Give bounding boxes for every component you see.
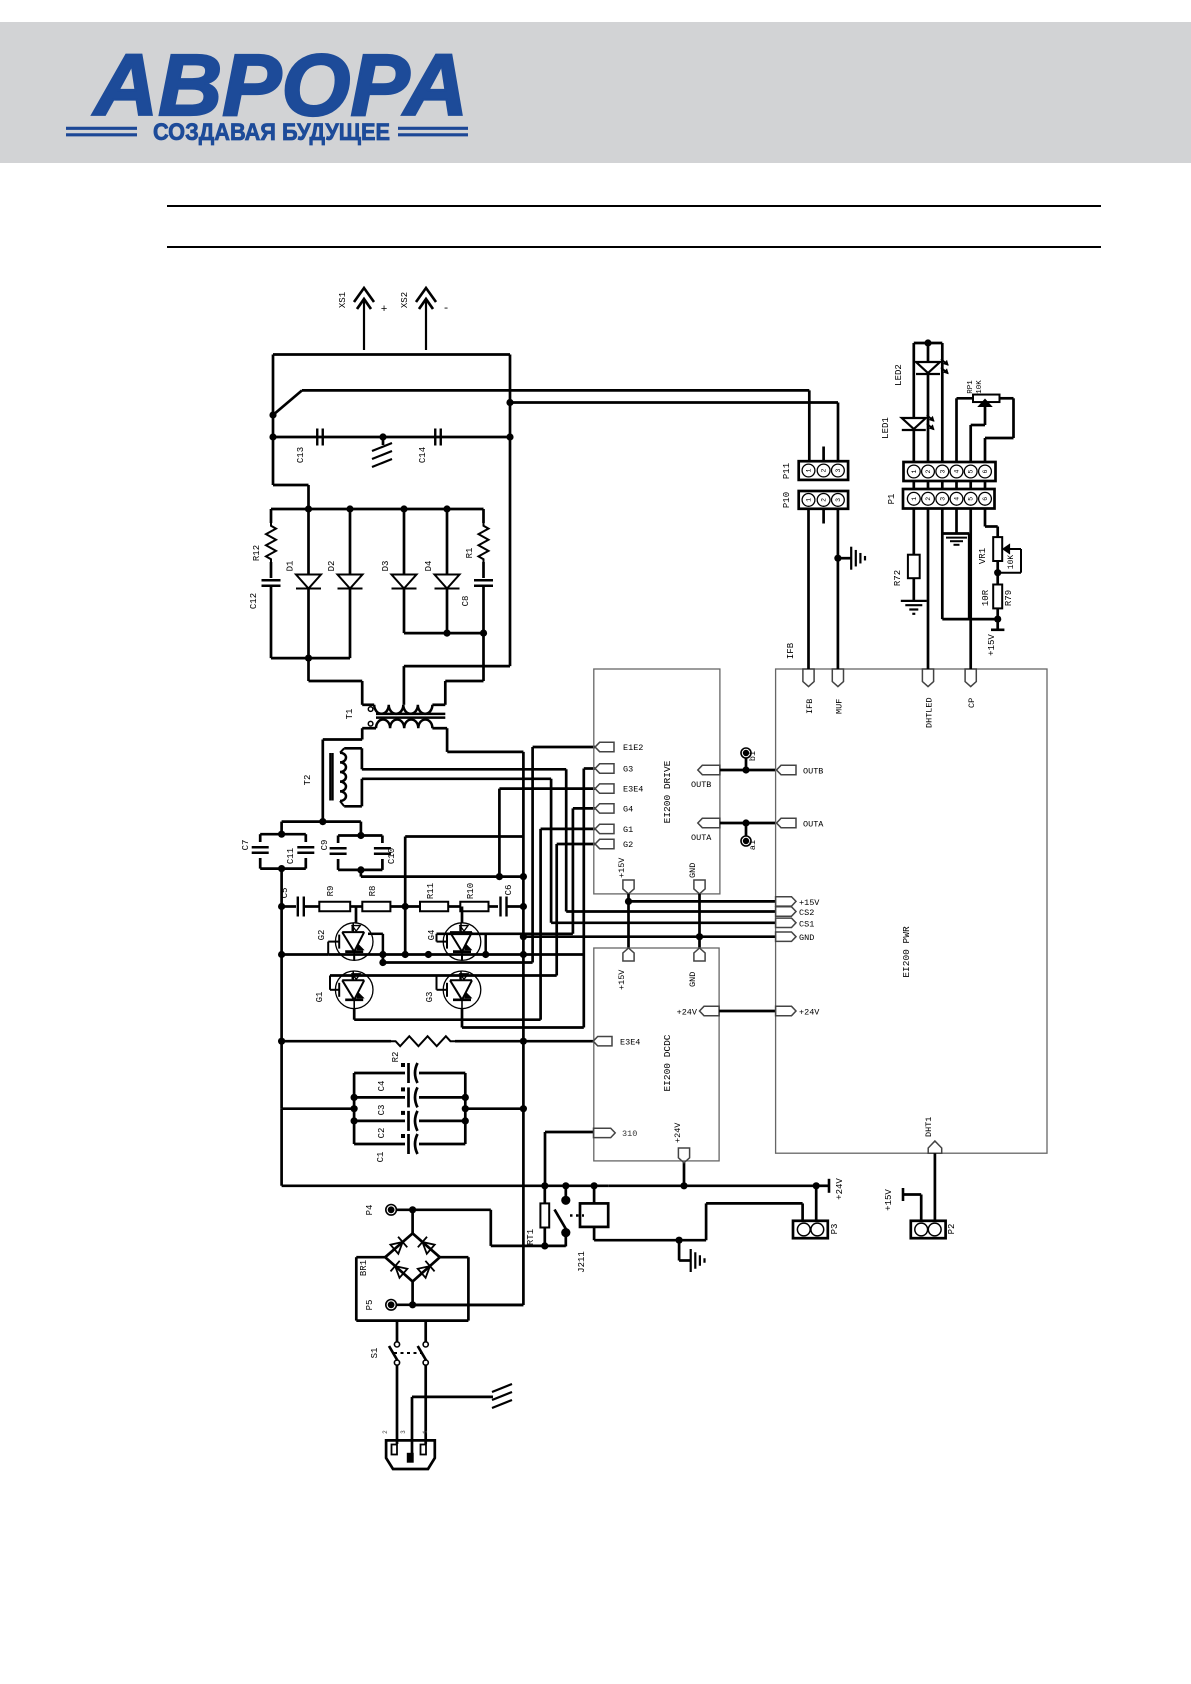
- svg-text:a1: a1: [748, 840, 758, 850]
- svg-text:C6: C6: [504, 885, 514, 896]
- svg-text:+24V: +24V: [799, 1008, 820, 1018]
- svg-text:10R: 10R: [981, 589, 991, 606]
- svg-text:VR1: VR1: [978, 548, 988, 564]
- svg-text:E3E4: E3E4: [623, 785, 643, 795]
- svg-text:BR1: BR1: [359, 1260, 369, 1276]
- svg-text:G1: G1: [315, 992, 325, 1003]
- svg-text:E3E4: E3E4: [620, 1038, 640, 1048]
- svg-text:D4: D4: [424, 561, 434, 572]
- svg-text:5: 5: [968, 469, 975, 473]
- svg-text:XS2: XS2: [400, 292, 410, 308]
- svg-text:R8: R8: [368, 886, 378, 897]
- svg-text:LED1: LED1: [881, 417, 891, 439]
- svg-text:G2: G2: [623, 840, 633, 850]
- svg-text:C3: C3: [377, 1105, 387, 1116]
- svg-text:R11: R11: [426, 883, 436, 899]
- svg-text:EI200 PWR: EI200 PWR: [901, 926, 912, 978]
- svg-text:GND: GND: [688, 972, 698, 987]
- svg-text:D1: D1: [286, 561, 296, 572]
- svg-text:P10: P10: [782, 492, 792, 508]
- svg-text:G2: G2: [317, 930, 327, 941]
- svg-text:+: +: [381, 304, 388, 316]
- svg-text:C1: C1: [376, 1152, 386, 1163]
- svg-text:C13: C13: [296, 447, 306, 463]
- svg-text:E1E2: E1E2: [623, 743, 643, 753]
- svg-text:1: 1: [806, 468, 813, 472]
- svg-text:C9: C9: [320, 840, 330, 851]
- svg-text:310: 310: [622, 1129, 637, 1139]
- svg-text:C11: C11: [286, 848, 296, 864]
- svg-text:3: 3: [400, 1430, 407, 1434]
- svg-text:MUF: MUF: [834, 699, 844, 714]
- svg-text:EI200 DRIVE: EI200 DRIVE: [662, 760, 673, 823]
- svg-text:C2: C2: [377, 1128, 387, 1139]
- svg-text:R79: R79: [1004, 590, 1014, 606]
- svg-text:CP: CP: [967, 698, 977, 708]
- svg-text:+15V: +15V: [799, 898, 820, 908]
- svg-text:10K: 10K: [1007, 555, 1016, 570]
- svg-text:CS1: CS1: [799, 919, 814, 929]
- svg-text:b1: b1: [748, 751, 758, 761]
- svg-text:2: 2: [821, 498, 828, 502]
- svg-text:P3: P3: [830, 1224, 840, 1235]
- svg-text:6: 6: [982, 469, 989, 473]
- svg-text:C8: C8: [461, 596, 471, 607]
- svg-text:2: 2: [382, 1430, 389, 1434]
- svg-text:+15V: +15V: [617, 969, 627, 990]
- svg-text:2: 2: [925, 497, 932, 501]
- svg-text:C4: C4: [377, 1081, 387, 1092]
- svg-text:GND: GND: [799, 933, 814, 943]
- svg-text:3: 3: [939, 469, 946, 473]
- svg-text:D2: D2: [327, 561, 337, 572]
- svg-text:5: 5: [968, 497, 975, 501]
- svg-text:T1: T1: [345, 709, 355, 720]
- svg-text:+24V: +24V: [835, 1178, 845, 1200]
- svg-text:GND: GND: [688, 863, 698, 878]
- svg-text:C7: C7: [241, 840, 251, 851]
- svg-text:IFB: IFB: [805, 699, 815, 714]
- svg-text:D3: D3: [381, 561, 391, 572]
- svg-text:J211: J211: [577, 1251, 587, 1273]
- svg-text:1: 1: [422, 1430, 429, 1434]
- svg-text:R10: R10: [466, 883, 476, 899]
- svg-text:T2: T2: [303, 775, 313, 786]
- svg-text:DHTLED: DHTLED: [925, 697, 935, 728]
- svg-text:P4: P4: [365, 1205, 375, 1216]
- svg-text:R9: R9: [326, 886, 336, 897]
- svg-text:DHT1: DHT1: [924, 1117, 934, 1137]
- svg-text:1: 1: [806, 498, 813, 502]
- svg-text:-: -: [443, 303, 450, 315]
- svg-text:R72: R72: [893, 570, 903, 586]
- svg-text:C12: C12: [249, 593, 259, 609]
- svg-text:4: 4: [954, 497, 961, 501]
- svg-text:RT1: RT1: [526, 1229, 536, 1245]
- svg-text:СОЗДАВАЯ БУДУЩЕЕ: СОЗДАВАЯ БУДУЩЕЕ: [153, 119, 390, 146]
- svg-text:3: 3: [835, 498, 842, 502]
- svg-text:3: 3: [939, 497, 946, 501]
- svg-text:S1: S1: [370, 1348, 380, 1359]
- svg-text:EI200 DCDC: EI200 DCDC: [662, 1034, 673, 1091]
- svg-text:OUTA: OUTA: [803, 820, 824, 830]
- svg-text:G3: G3: [623, 765, 633, 775]
- svg-text:R1: R1: [465, 548, 475, 559]
- svg-text:CS2: CS2: [799, 908, 814, 918]
- svg-text:C5: C5: [280, 888, 290, 899]
- svg-text:IFB: IFB: [786, 642, 796, 659]
- svg-text:2: 2: [925, 469, 932, 473]
- svg-text:+24V: +24V: [673, 1122, 683, 1143]
- svg-text:1: 1: [911, 497, 918, 501]
- svg-text:R12: R12: [252, 545, 262, 561]
- svg-text:OUTA: OUTA: [691, 833, 712, 843]
- svg-text:4: 4: [954, 469, 961, 473]
- svg-text:+24V: +24V: [677, 1008, 698, 1018]
- svg-text:P11: P11: [782, 463, 792, 479]
- svg-text:+15V: +15V: [617, 857, 627, 878]
- svg-text:G3: G3: [425, 992, 435, 1003]
- svg-text:RP1: RP1: [967, 380, 975, 394]
- svg-text:+15V: +15V: [987, 634, 997, 656]
- svg-text:G1: G1: [623, 825, 633, 835]
- svg-text:OUTB: OUTB: [803, 767, 823, 777]
- svg-text:C14: C14: [418, 447, 428, 463]
- svg-text:10K: 10K: [976, 380, 984, 394]
- svg-text:C10: C10: [387, 848, 397, 864]
- svg-text:P5: P5: [365, 1300, 375, 1311]
- svg-text:6: 6: [982, 497, 989, 501]
- svg-text:G4: G4: [623, 804, 633, 814]
- svg-text:2: 2: [821, 468, 828, 472]
- svg-text:3: 3: [835, 468, 842, 472]
- svg-text:P2: P2: [947, 1224, 957, 1235]
- svg-text:XS1: XS1: [338, 292, 348, 308]
- svg-text:R2: R2: [391, 1052, 401, 1063]
- svg-text:P1: P1: [887, 494, 897, 505]
- svg-text:+15V: +15V: [884, 1189, 894, 1211]
- svg-text:1: 1: [911, 469, 918, 473]
- svg-text:LED2: LED2: [894, 364, 904, 386]
- svg-text:OUTB: OUTB: [691, 780, 711, 790]
